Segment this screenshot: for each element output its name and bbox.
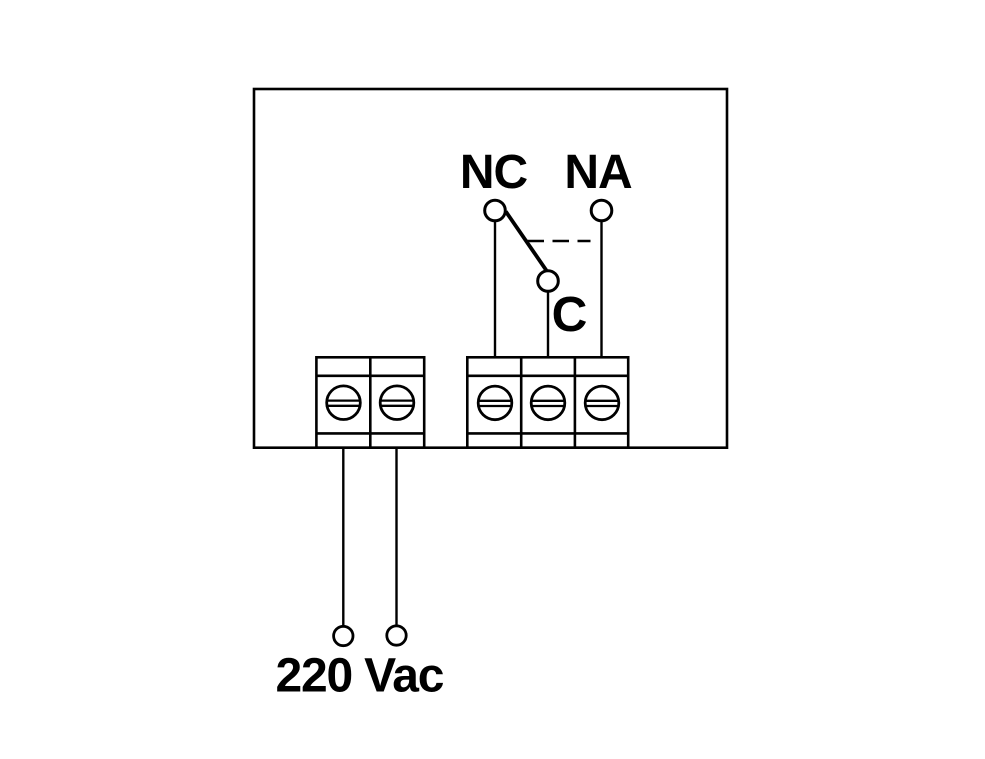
right terminal block divider 1 <box>520 357 523 447</box>
svg-text:NA: NA <box>564 146 632 199</box>
terminal NC (relay contact circle) <box>485 200 506 221</box>
svg-text:NC: NC <box>460 146 528 199</box>
screw terminal L2 <box>380 386 414 420</box>
right terminal block divider 2 <box>574 357 577 447</box>
svg-text:220 Vac: 220 Vac <box>276 650 444 703</box>
mains terminal circle N <box>387 626 406 645</box>
left terminal block bottom rail <box>316 432 424 435</box>
right terminal block outline (3-pole) <box>467 357 628 447</box>
wire NA to terminal block <box>600 222 602 358</box>
wire NC to terminal block <box>494 222 496 358</box>
wire C to terminal block <box>547 292 549 358</box>
left terminal block outline (2-pole) <box>316 357 424 447</box>
screw terminal R1 (NC) <box>478 386 512 420</box>
screw terminal R3 (NA) <box>585 386 619 420</box>
mains wire N <box>395 448 397 626</box>
device outline box <box>254 89 727 448</box>
left terminal block divider <box>369 357 372 447</box>
svg-text:C: C <box>552 287 588 342</box>
screw terminal R2 (C) <box>531 386 565 420</box>
right terminal block bottom rail <box>467 432 628 435</box>
dashed throw line <box>528 240 591 243</box>
mains wire L <box>342 448 344 626</box>
right terminal block top rail <box>467 374 628 377</box>
left terminal block top rail <box>316 374 424 377</box>
switch arm (NC to C) <box>506 212 547 271</box>
screw terminal L1 <box>327 386 361 420</box>
terminal NA (relay contact circle) <box>591 200 612 221</box>
mains terminal circle L <box>334 626 353 645</box>
terminal C (relay common circle) <box>538 271 559 292</box>
